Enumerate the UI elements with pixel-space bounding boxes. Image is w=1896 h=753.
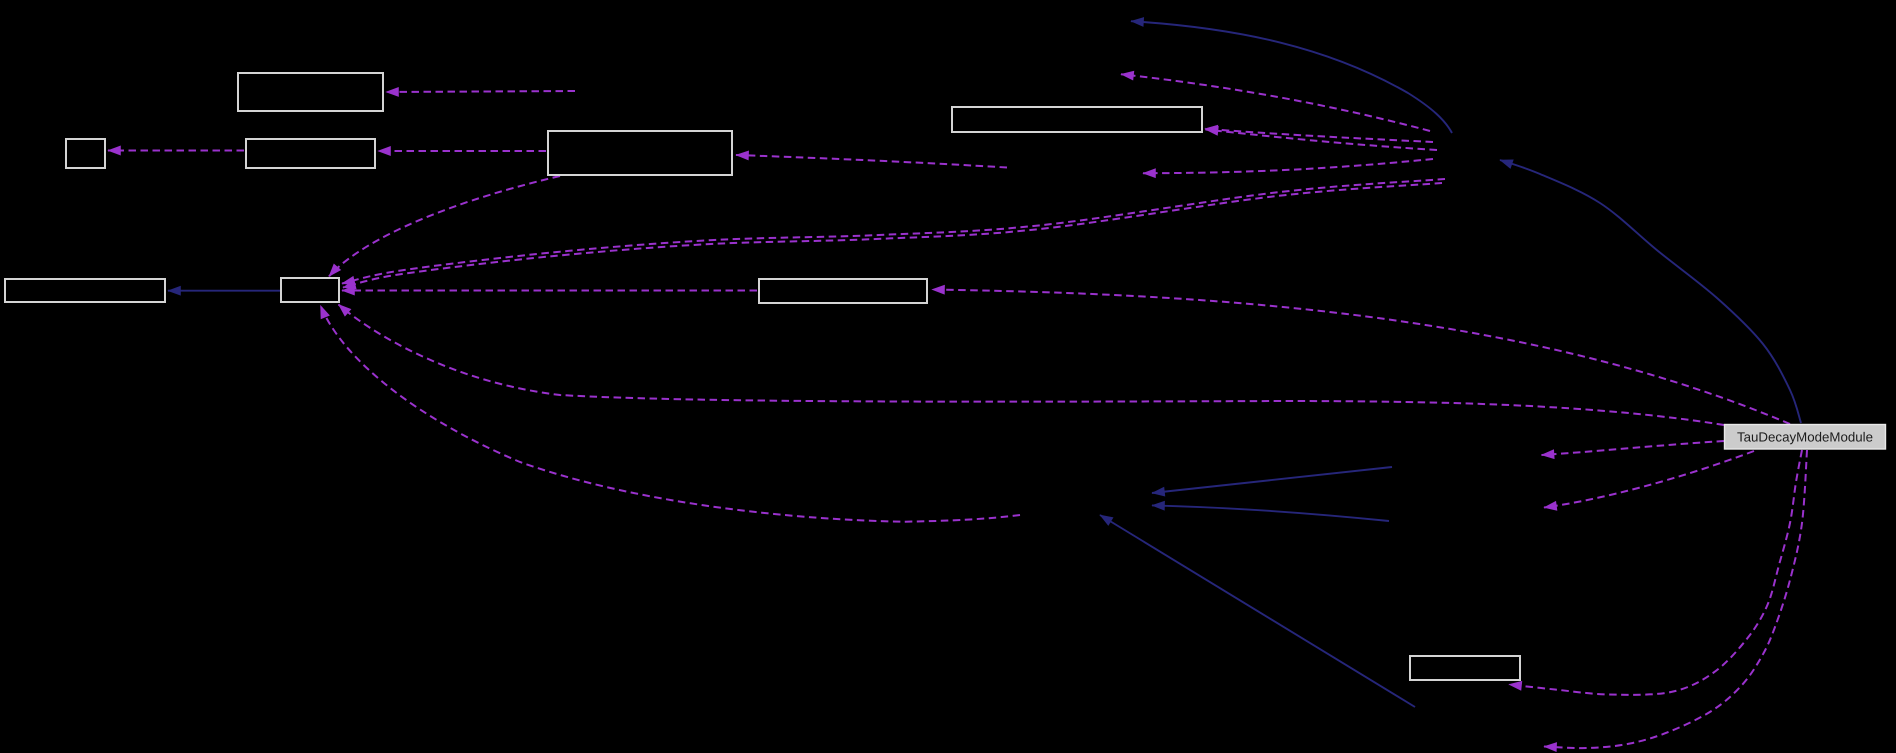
edge node I to node G corner via y400 (dashed curve) (339, 305, 1725, 426)
edge N3 to node A (dashed) (386, 91, 575, 92)
edge hub to N0 (blue solid curve) (1131, 21, 1452, 133)
edge node D to node C (dashed) (378, 150, 546, 152)
edge invisible to invisible lower (blue solid) (1152, 505, 1389, 521)
node G box (281, 278, 339, 302)
node B box (66, 139, 105, 168)
edge node I to node H (dashed curve) (932, 290, 1790, 425)
node I TauDecayModeModule box (1725, 425, 1886, 450)
edge hub to node E upper (dashed) (1205, 129, 1433, 142)
edge node I to N5 (dashed) (1542, 441, 1725, 455)
edge hub to N2 (dashed) (1143, 159, 1433, 173)
node A box (238, 73, 383, 111)
node C box (246, 139, 375, 168)
edge node I to N7 (dashed curve) (1544, 450, 1807, 748)
node E box (952, 107, 1202, 132)
edge node C to node B (dashed) (108, 150, 244, 152)
node H box (759, 279, 927, 303)
edge invisible to invisible upper (blue solid) (1152, 467, 1392, 493)
node J box (1410, 656, 1520, 680)
edge node I to hub (blue solid curve) (1500, 160, 1801, 423)
node D box (548, 131, 732, 175)
edge node G to node F (blue solid) (168, 290, 280, 292)
edge node I to node J (dashed curve) (1509, 450, 1802, 695)
edge hub to node G upper of pair (dashed) (342, 179, 1445, 284)
svg-text:TauDecayModeModule: TauDecayModeModule (1737, 430, 1873, 445)
edge hub to node E lower (dashed) (1206, 130, 1438, 151)
edge node D to node G (dashed curve) (329, 176, 560, 276)
edge node I to N6 (dashed) (1544, 451, 1754, 508)
edge hub to N4 (dashed) (1121, 74, 1430, 131)
edge node H to node G (dashed) (342, 290, 757, 292)
edge N2 to node D (dashed) (736, 155, 1007, 168)
node F box (5, 279, 165, 302)
edge invisible node to node G bottom (dashed curve) (321, 306, 1021, 522)
edge hub to node G lower of pair (dashed) (343, 183, 1442, 288)
edge invisible bottom to invisible (blue solid) (1100, 515, 1415, 707)
